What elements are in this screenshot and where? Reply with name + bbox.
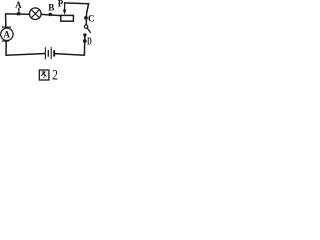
switch blade	[87, 28, 91, 33]
wire top-left horizontal	[6, 13, 30, 15]
node A	[17, 12, 20, 15]
ammeter top tick	[2, 26, 11, 28]
ammeter A1 circle	[1, 28, 13, 40]
battery cell plate long 2	[50, 47, 52, 59]
slider arrow P	[64, 3, 66, 10]
wire D down to corner	[83, 35, 86, 55]
svg-text:A: A	[15, 0, 22, 10]
lamp B1 cross	[31, 10, 39, 18]
wire left vertical upper	[5, 13, 7, 27]
wire lamp to rheostat	[41, 14, 61, 15]
rheostat box R	[61, 15, 74, 21]
svg-text:C: C	[88, 14, 95, 24]
svg-text:D: D	[87, 37, 92, 48]
svg-text:2: 2	[52, 68, 58, 83]
wire bottom right	[55, 54, 85, 56]
battery cell plate short 2	[53, 50, 55, 56]
battery cell plate long 1	[44, 47, 46, 59]
svg-text:A: A	[4, 30, 11, 40]
wire bottom left	[6, 54, 46, 56]
node C	[84, 16, 88, 20]
switch S1 lower terminal dot	[83, 33, 86, 36]
svg-text:B: B	[48, 3, 54, 13]
switch S1 pivot circle	[84, 25, 87, 28]
ammeter bottom tick	[2, 40, 9, 42]
node D	[83, 39, 87, 43]
wire right vertical upper	[86, 3, 88, 25]
svg-text:P: P	[58, 0, 64, 9]
lamp B1 circle	[30, 8, 42, 20]
node B	[48, 13, 52, 17]
caption glyph tu (figure)	[39, 70, 49, 80]
label A pointer	[18, 8, 20, 12]
battery cell plate short 1	[47, 50, 49, 57]
wire top-right horizontal	[64, 2, 89, 5]
wire left vertical lower	[5, 41, 7, 56]
